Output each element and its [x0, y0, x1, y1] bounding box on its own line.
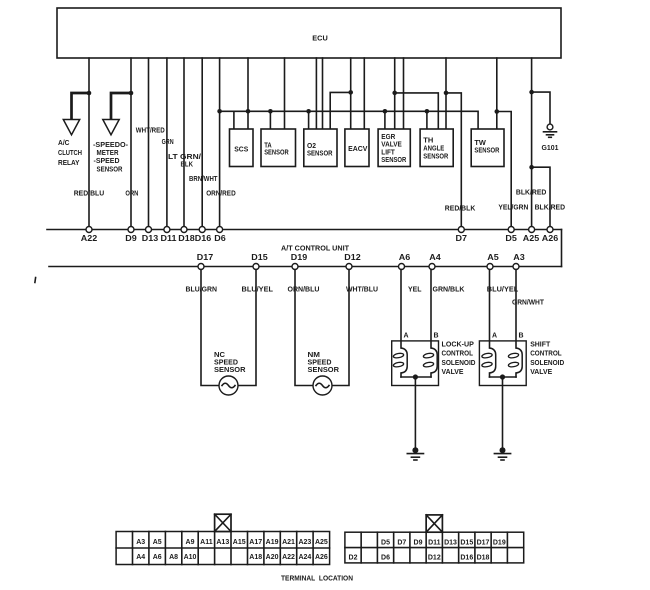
svg-text:A17: A17 [249, 539, 262, 546]
svg-text:A19: A19 [266, 539, 279, 546]
svg-text:A25: A25 [523, 234, 540, 243]
svg-text:SENSOR: SENSOR [214, 365, 246, 374]
coil common bar [490, 376, 517, 378]
wire ECU to TA sensor [284, 58, 286, 129]
svg-text:D12: D12 [344, 253, 361, 262]
wire ECU to EGR lift sensor mid pin with branch to TH angle sensor [394, 58, 396, 129]
svg-text:D16: D16 [460, 554, 473, 561]
ground symbol [500, 447, 506, 453]
sensor box SCS [230, 129, 254, 167]
svg-text:-SPEED: -SPEED [94, 158, 120, 165]
ECU box U1 [57, 8, 561, 58]
svg-text:TERMINAL LOCATION: TERMINAL LOCATION [281, 576, 353, 583]
svg-text:D15: D15 [460, 539, 473, 546]
svg-text:D11: D11 [161, 234, 178, 243]
svg-text:SCS: SCS [234, 147, 248, 154]
wire ECU to terminal A22 [88, 58, 90, 230]
sensor ground bus wire from D6 wire to TW sensor [220, 111, 479, 129]
ground G101 symbol [547, 124, 553, 130]
svg-text:VALVE: VALVE [442, 367, 464, 376]
svg-text:TA: TA [264, 142, 272, 149]
svg-text:D2: D2 [349, 554, 358, 561]
svg-text:EACV: EACV [348, 146, 368, 153]
junction dot bus/SCS wire [246, 109, 251, 114]
junction dot bus on D6 wire [217, 109, 222, 114]
connector D keyway (crossed box) [426, 515, 442, 532]
svg-text:A5: A5 [487, 253, 499, 262]
svg-text:A22: A22 [81, 234, 98, 243]
svg-text:D13: D13 [444, 539, 457, 546]
wire ECU to terminal A25 [531, 58, 533, 230]
svg-text:A13: A13 [216, 539, 229, 546]
wire ECU to EACV right pin [363, 58, 365, 129]
svg-text:A20: A20 [266, 554, 279, 561]
wire branch to A/C clutch relay (thick) [72, 93, 90, 119]
terminal D5 [508, 227, 514, 233]
svg-text:A24: A24 [298, 554, 311, 561]
wire bus to O2 sensor left pin [308, 111, 310, 129]
svg-text:A3: A3 [136, 539, 145, 546]
svg-text:D17: D17 [197, 253, 214, 262]
wire ECU to TW sensor right pin with branch to terminal D5 [496, 58, 498, 129]
ground symbol [412, 447, 418, 453]
svg-text:SENSOR: SENSOR [308, 365, 340, 374]
wire ECU to terminal D6 [219, 58, 221, 230]
terminal D6 [217, 227, 223, 233]
svg-text:SENSOR: SENSOR [97, 166, 123, 173]
solenoid coil [401, 348, 407, 373]
svg-text:A/T CONTROL UNIT: A/T CONTROL UNIT [281, 246, 350, 253]
svg-text:A5: A5 [153, 539, 162, 546]
junction dot on A22 wire [87, 91, 92, 96]
wire D15 to NC speed sensor [238, 270, 256, 386]
svg-text:BLU/YEL: BLU/YEL [242, 287, 274, 294]
svg-text:D18: D18 [477, 554, 490, 561]
sensor box EGR [378, 129, 410, 167]
terminal D16 [199, 227, 205, 233]
svg-text:A22: A22 [282, 554, 295, 561]
svg-text:ORN/RED: ORN/RED [206, 191, 236, 198]
terminal D19 [292, 264, 298, 270]
svg-text:GRN/WHT: GRN/WHT [512, 300, 545, 307]
svg-text:A21: A21 [282, 539, 295, 546]
solenoid coil [516, 348, 522, 373]
sensor box EACV [345, 129, 369, 167]
wire ECU to terminal D18 [183, 58, 185, 230]
svg-text:RED/BLU: RED/BLU [74, 191, 105, 198]
svg-text:A3: A3 [513, 253, 525, 262]
terminal D11 [164, 227, 170, 233]
svg-text:D16: D16 [195, 234, 212, 243]
svg-text:A18: A18 [249, 554, 262, 561]
svg-text:D5: D5 [505, 234, 517, 243]
svg-text:B: B [519, 332, 524, 339]
wire D12 to NM speed sensor [332, 270, 349, 386]
svg-text:A4: A4 [136, 554, 145, 561]
wire ECU to EGR lift sensor right pin [403, 58, 405, 129]
wire terminal to solenoid coil A [400, 270, 402, 349]
svg-text:SHIFT: SHIFT [530, 339, 550, 348]
svg-text:D18: D18 [178, 234, 195, 243]
wire branch to speedometer/speed sensor (thick) [111, 93, 131, 119]
svg-text:GRN/BLK: GRN/BLK [433, 287, 465, 294]
terminal A5 [487, 264, 493, 270]
terminal A6 [399, 264, 405, 270]
wire bus to EGR sensor left pin [384, 111, 386, 129]
svg-text:METER: METER [97, 150, 119, 157]
wire D19 to NM speed sensor [295, 270, 313, 386]
wire D17 to NC speed sensor [201, 270, 219, 386]
solenoid valve box [479, 341, 526, 386]
wire ECU to SCS [247, 58, 249, 129]
svg-text:A6: A6 [399, 253, 411, 262]
wire ECU to EACV left pin with branch to O2 right pin [350, 58, 352, 129]
svg-text:A25: A25 [315, 539, 328, 546]
sensor box TA [261, 129, 296, 167]
stray tick mark at left edge [34, 278, 37, 283]
svg-text:A6: A6 [153, 554, 162, 561]
svg-text:D17: D17 [477, 539, 490, 546]
svg-text:O2: O2 [307, 143, 316, 150]
speedometer / speed sensor symbol (triangle) [103, 120, 119, 135]
svg-text:SENSOR: SENSOR [423, 154, 448, 161]
svg-text:TH: TH [423, 138, 433, 145]
coil common bar [401, 376, 431, 378]
svg-text:ORN/BLU: ORN/BLU [288, 287, 320, 294]
svg-text:GRN: GRN [162, 139, 174, 146]
terminal A25 [529, 227, 535, 233]
terminal D15 [253, 264, 259, 270]
svg-text:SOLENOID: SOLENOID [530, 358, 565, 367]
wire ECU to TH angle sensor right pin with branch to terminal D7 [445, 58, 447, 129]
svg-text:CLUTCH: CLUTCH [58, 150, 82, 157]
svg-text:D7: D7 [397, 539, 406, 546]
junction dot [413, 374, 418, 379]
wire ECU to O2 sensor pin c [322, 58, 324, 129]
svg-text:A4: A4 [429, 253, 441, 262]
svg-text:CONTROL: CONTROL [530, 349, 562, 358]
svg-text:SENSOR: SENSOR [474, 148, 499, 155]
terminal A4 [429, 264, 435, 270]
junction dot on D9 wire [129, 91, 134, 96]
wire to ground [414, 377, 416, 448]
wire bus to TA sensor left pin [269, 111, 271, 129]
svg-text:BLK/RED: BLK/RED [516, 190, 547, 197]
svg-text:B: B [434, 332, 439, 339]
svg-text:LT GRN/: LT GRN/ [168, 154, 201, 161]
svg-text:D12: D12 [428, 554, 441, 561]
svg-text:BRN/WHT: BRN/WHT [189, 176, 218, 183]
svg-text:A23: A23 [298, 539, 311, 546]
A/T control unit top line [47, 229, 562, 231]
junction dot [500, 374, 505, 379]
svg-text:D11: D11 [428, 539, 441, 546]
wire ECU to terminal D9 [130, 58, 132, 230]
solenoid valve box [392, 341, 439, 386]
solenoid coil [490, 348, 496, 373]
svg-text:A11: A11 [200, 539, 213, 546]
svg-text:ANGLE: ANGLE [423, 146, 444, 153]
svg-text:TW: TW [474, 140, 486, 147]
svg-text:EGR: EGR [381, 134, 395, 141]
svg-text:LOCK-UP: LOCK-UP [442, 339, 474, 348]
sensor box TH [420, 129, 453, 167]
terminal location table D (22-pin connector) [345, 532, 524, 563]
terminal D9 [128, 227, 134, 233]
wire terminal to solenoid coil B [430, 270, 432, 349]
svg-text:A: A [404, 332, 409, 339]
solenoid coil [431, 348, 437, 373]
svg-text:D15: D15 [251, 253, 268, 262]
svg-text:A/C: A/C [58, 140, 70, 147]
svg-text:WHT/BLU: WHT/BLU [346, 287, 378, 294]
svg-text:A26: A26 [542, 234, 559, 243]
svg-text:G101: G101 [542, 145, 559, 152]
svg-text:A: A [492, 332, 497, 339]
terminal D7 [458, 227, 464, 233]
svg-text:A26: A26 [315, 554, 328, 561]
svg-text:YEL/GRN: YEL/GRN [498, 204, 528, 211]
terminal D12 [346, 264, 352, 270]
A/T control unit bottom line [49, 266, 562, 268]
terminal D13 [146, 227, 152, 233]
wire ECU to terminal D13 [148, 58, 150, 230]
svg-text:VALVE: VALVE [381, 142, 402, 149]
svg-text:SENSOR: SENSOR [264, 150, 289, 157]
svg-text:A9: A9 [186, 539, 195, 546]
wire ECU to terminal D16 [201, 58, 203, 230]
sensor box O2 [304, 129, 337, 167]
NM speed sensor symbol [313, 376, 332, 395]
wire branch to ground G101 [532, 92, 550, 124]
sensor box TW [471, 129, 504, 167]
wire branch to terminal A26 [532, 167, 550, 229]
svg-text:ORN: ORN [125, 191, 138, 198]
svg-text:LIFT: LIFT [381, 149, 395, 156]
wire bus to TH angle sensor left pin [426, 111, 428, 129]
wire ECU to O2 sensor pin b [315, 58, 317, 129]
svg-text:D13: D13 [142, 234, 159, 243]
svg-text:D9: D9 [125, 234, 137, 243]
svg-text:RELAY: RELAY [58, 160, 80, 167]
svg-text:D5: D5 [381, 539, 390, 546]
svg-text:A15: A15 [233, 539, 246, 546]
svg-text:BLK: BLK [181, 161, 194, 168]
svg-text:SENSOR: SENSOR [381, 157, 406, 164]
terminal A26 [547, 227, 553, 233]
terminal D18 [181, 227, 187, 233]
svg-text:D6: D6 [214, 234, 226, 243]
connector A keyway (crossed box) [215, 514, 231, 531]
NC speed sensor symbol [219, 376, 238, 395]
svg-text:RED/BLK: RED/BLK [445, 206, 476, 213]
terminal A3 [513, 264, 519, 270]
A/T control unit right edge [561, 230, 563, 267]
wire ECU to terminal D11 [166, 58, 168, 230]
svg-text:D9: D9 [414, 539, 423, 546]
svg-text:D19: D19 [493, 539, 506, 546]
svg-text:BLK/RED: BLK/RED [535, 204, 566, 211]
svg-text:SENSOR: SENSOR [307, 151, 333, 158]
A/C clutch relay symbol (triangle) [63, 120, 79, 135]
svg-text:ECU: ECU [312, 34, 328, 43]
svg-text:D6: D6 [381, 554, 390, 561]
svg-text:BLU/YEL: BLU/YEL [487, 287, 519, 294]
wire to ground [502, 377, 504, 448]
terminal A22 [86, 227, 92, 233]
terminal D17 [198, 264, 204, 270]
wire bus to SCS left pin [233, 111, 235, 129]
svg-text:YEL: YEL [408, 287, 422, 294]
terminal location table A (26-pin connector) [116, 532, 330, 565]
svg-text:A8: A8 [169, 554, 178, 561]
svg-text:-SPEEDO-: -SPEEDO- [93, 142, 129, 149]
wire terminal to solenoid coil A [489, 270, 491, 349]
wire terminal to solenoid coil B [515, 270, 517, 349]
svg-text:D19: D19 [291, 253, 308, 262]
svg-text:A10: A10 [184, 554, 197, 561]
svg-text:CONTROL: CONTROL [442, 349, 474, 358]
svg-text:D7: D7 [456, 234, 468, 243]
svg-text:SOLENOID: SOLENOID [442, 358, 477, 367]
svg-text:VALVE: VALVE [530, 367, 552, 376]
svg-text:WHT/RED: WHT/RED [136, 128, 165, 135]
